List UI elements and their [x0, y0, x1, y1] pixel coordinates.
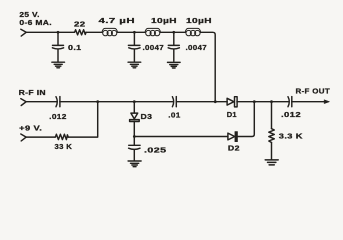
wire: L3 to corner, down to mid rail junction J6 [201, 32, 216, 101]
svg-text:10µH: 10µH [186, 16, 212, 25]
wire: mid rail C4 to C5 through J4 and J5 [60, 101, 173, 103]
ground: below C1 [52, 62, 65, 68]
svg-text:.025: .025 [144, 145, 167, 154]
svg-text:.0047: .0047 [143, 43, 165, 52]
inductor L2 10uH [145, 28, 161, 35]
svg-text:D1: D1 [227, 110, 238, 119]
ground: below C6 [128, 161, 141, 167]
arrowhead: R-F OUT [324, 100, 329, 104]
capacitor C6 .025 (shunt, N1 to ground) [129, 137, 141, 161]
diode D3 (shunt, J5 down to node N1) [130, 102, 140, 137]
junction J4 (33K feed point) [96, 100, 99, 103]
wire: R-F IN terminal to capacitor C4 [26, 101, 56, 103]
svg-text:33 K: 33 K [55, 142, 73, 151]
capacitor C7 .012 (series, output) [288, 97, 292, 107]
capacitor C4 .012 (series, input) [56, 97, 60, 107]
diode D2 (lower rail, returns to J7) [228, 102, 254, 142]
svg-text:+9 V.: +9 V. [19, 123, 42, 132]
svg-text:.012: .012 [281, 110, 301, 119]
capacitor C3 .0047 (shunt, J3 to ground) [168, 32, 179, 61]
svg-text:.012: .012 [49, 112, 66, 121]
capacitor C5 .01 (series, mid rail) [172, 97, 176, 107]
wire: C7 to R-F OUT arrow [292, 101, 327, 103]
svg-text:3.3 K: 3.3 K [279, 132, 303, 141]
junction J8 (3.3K tap) [270, 100, 273, 103]
junction J7 (D2 return) [253, 100, 256, 103]
resistor R3 3.3K (shunt, J8 to ground) [269, 102, 275, 160]
ground: below R3 [265, 160, 278, 165]
svg-text:4.7 µH: 4.7 µH [99, 16, 136, 25]
resistor R2 33K [55, 134, 68, 139]
inductor L3 10uH [185, 28, 201, 35]
ground: below C2 [128, 62, 141, 68]
svg-text:.0047: .0047 [186, 43, 208, 52]
wire: R1 to inductor L1 [86, 31, 102, 33]
capacitor C1 0.1 (shunt, J1 to ground) [52, 32, 63, 61]
junction J5 (D3 tap) [133, 100, 136, 103]
wire: top rail from 25V terminal to resistor R1 [26, 31, 74, 33]
junction J3 on top rail [172, 31, 175, 34]
wire: C5 to junction J6 [176, 101, 215, 103]
wire: R2 right then riser up to junction J4 [68, 102, 98, 137]
junction J6 (top-rail feed meets mid rail) [214, 100, 217, 103]
svg-text:0-6 MA.: 0-6 MA. [19, 18, 52, 27]
wire: lower rail N1 to diode D2 [134, 136, 228, 138]
inductor L1 4.7uH [102, 28, 118, 35]
junction N1 (D3 cathode node) [133, 135, 136, 138]
svg-text:10µH: 10µH [151, 16, 177, 25]
wire: +9V terminal to resistor R2 [26, 136, 54, 138]
svg-text:22: 22 [74, 19, 86, 28]
svg-text:R-F OUT: R-F OUT [296, 87, 331, 96]
wire: L1 to L2 through junction J2 [118, 31, 146, 33]
svg-text:.01: .01 [168, 110, 181, 119]
wire: J7 to J8 to C7 [254, 101, 288, 103]
resistor R1 22 ohms [74, 30, 86, 35]
diode D1 (series on mid rail) [215, 97, 254, 107]
svg-text:0.1: 0.1 [68, 43, 82, 52]
terminal: 25V supply input arrow [21, 29, 26, 36]
wire: L2 to L3 through junction J3 [161, 31, 186, 33]
svg-text:D3: D3 [141, 112, 153, 121]
terminal: R-F IN arrow [21, 99, 26, 106]
svg-text:R-F IN: R-F IN [19, 88, 46, 97]
capacitor C2 .0047 (shunt, J2 to ground) [128, 32, 140, 61]
ground: below C3 [168, 62, 181, 68]
junction J2 on top rail [133, 31, 136, 34]
svg-text:D2: D2 [228, 144, 240, 153]
terminal: +9V arrow [21, 134, 26, 141]
junction J1 on top rail [57, 31, 60, 34]
